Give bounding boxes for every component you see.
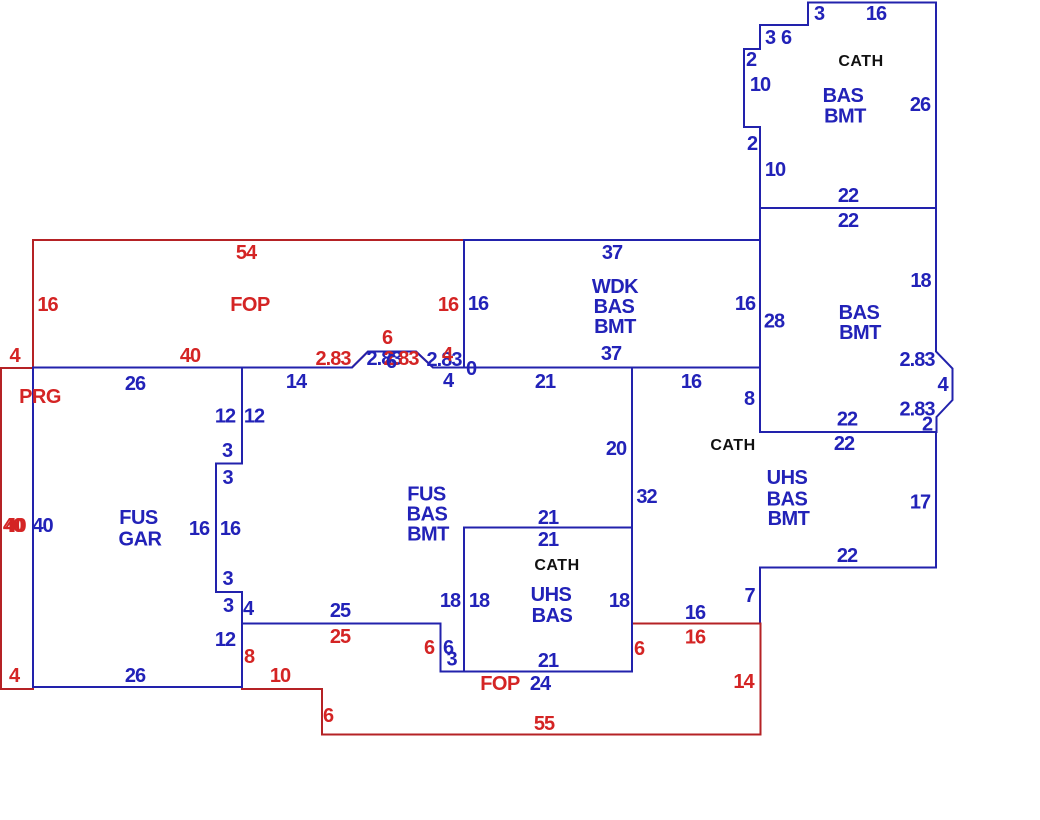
svg-text:FOP: FOP xyxy=(230,294,270,316)
svg-text:BAS: BAS xyxy=(407,504,448,526)
svg-text:3: 3 xyxy=(222,568,233,590)
svg-text:8: 8 xyxy=(244,646,255,668)
svg-text:16: 16 xyxy=(681,371,702,393)
svg-text:26: 26 xyxy=(125,373,146,395)
svg-text:2: 2 xyxy=(922,414,933,436)
svg-text:6: 6 xyxy=(424,637,435,659)
svg-text:6: 6 xyxy=(634,638,645,660)
svg-text:54: 54 xyxy=(236,242,258,264)
svg-text:16: 16 xyxy=(685,627,706,649)
svg-text:PRG: PRG xyxy=(19,386,61,408)
BAS BMT mid-right outline with chamfer (blue) xyxy=(760,208,953,432)
svg-text:18: 18 xyxy=(609,590,630,612)
svg-text:3: 3 xyxy=(223,595,234,617)
svg-text:BMT: BMT xyxy=(594,316,636,338)
svg-text:3: 3 xyxy=(814,3,825,25)
svg-text:BAS: BAS xyxy=(594,296,635,318)
svg-text:16: 16 xyxy=(438,294,459,316)
svg-text:2.83: 2.83 xyxy=(316,348,352,370)
svg-text:14: 14 xyxy=(733,671,755,693)
svg-text:CATH: CATH xyxy=(710,437,755,454)
svg-text:FUS: FUS xyxy=(407,484,446,506)
svg-text:40: 40 xyxy=(32,515,53,537)
svg-text:7: 7 xyxy=(744,585,755,607)
svg-text:BMT: BMT xyxy=(824,106,866,128)
svg-text:28: 28 xyxy=(764,311,785,333)
svg-text:6: 6 xyxy=(382,327,393,349)
svg-text:22: 22 xyxy=(837,545,858,567)
svg-text:16: 16 xyxy=(866,3,887,25)
UHS BAS inner box outline (blue) xyxy=(464,528,632,672)
svg-text:2: 2 xyxy=(746,49,757,71)
FUS BAS BMT outline (blue) xyxy=(216,352,632,672)
svg-text:16: 16 xyxy=(735,293,756,315)
svg-text:2.83: 2.83 xyxy=(900,349,936,371)
svg-text:3: 3 xyxy=(765,27,776,49)
svg-text:18: 18 xyxy=(440,590,461,612)
FOP top-left porch outline (red) xyxy=(33,240,464,368)
svg-text:BMT: BMT xyxy=(407,524,449,546)
svg-text:UHS: UHS xyxy=(767,467,808,489)
svg-text:21: 21 xyxy=(538,650,559,672)
svg-text:26: 26 xyxy=(125,665,146,687)
svg-text:WDK: WDK xyxy=(592,276,639,298)
svg-text:12: 12 xyxy=(215,629,236,651)
svg-text:FOP: FOP xyxy=(480,673,520,695)
svg-text:40: 40 xyxy=(180,345,201,367)
svg-text:10: 10 xyxy=(765,159,786,181)
svg-text:25: 25 xyxy=(330,626,351,648)
svg-text:22: 22 xyxy=(838,185,859,207)
svg-text:16: 16 xyxy=(37,294,58,316)
FOP bottom porch outline (red) xyxy=(242,624,761,735)
svg-text:BAS: BAS xyxy=(839,302,880,324)
svg-text:16: 16 xyxy=(189,518,210,540)
svg-text:BMT: BMT xyxy=(839,322,881,344)
svg-text:21: 21 xyxy=(535,371,556,393)
svg-text:BAS: BAS xyxy=(532,605,573,627)
svg-text:20: 20 xyxy=(606,438,627,460)
svg-text:22: 22 xyxy=(837,409,858,431)
svg-text:8: 8 xyxy=(744,388,755,410)
svg-text:21: 21 xyxy=(538,529,559,551)
svg-text:BAS: BAS xyxy=(823,85,864,107)
svg-text:14: 14 xyxy=(286,371,308,393)
svg-text:6: 6 xyxy=(386,351,397,373)
svg-text:CATH: CATH xyxy=(838,53,883,70)
svg-text:21: 21 xyxy=(538,507,559,529)
svg-text:22: 22 xyxy=(838,210,859,232)
svg-text:26: 26 xyxy=(910,94,931,116)
svg-text:BMT: BMT xyxy=(768,508,810,530)
svg-text:CATH: CATH xyxy=(534,557,579,574)
svg-text:2: 2 xyxy=(747,133,758,155)
svg-text:18: 18 xyxy=(910,270,931,292)
svg-text:24: 24 xyxy=(530,673,552,695)
svg-text:10: 10 xyxy=(270,665,291,687)
svg-text:55: 55 xyxy=(534,713,555,735)
UHS BAS BMT outline (blue, lower right) xyxy=(632,368,936,624)
svg-text:25: 25 xyxy=(330,600,351,622)
svg-text:32: 32 xyxy=(636,486,657,508)
svg-text:22: 22 xyxy=(834,433,855,455)
svg-text:16: 16 xyxy=(685,602,706,624)
svg-text:18: 18 xyxy=(469,590,490,612)
svg-text:12: 12 xyxy=(244,406,265,428)
svg-text:0: 0 xyxy=(466,358,477,380)
svg-text:17: 17 xyxy=(910,492,931,514)
svg-text:37: 37 xyxy=(601,343,622,365)
svg-text:GAR: GAR xyxy=(119,529,163,551)
svg-text:UHS: UHS xyxy=(531,584,572,606)
FUS GAR outline (blue) xyxy=(33,368,242,688)
WDK deck outline (blue) xyxy=(464,240,760,368)
svg-text:3: 3 xyxy=(446,649,457,671)
svg-text:6: 6 xyxy=(781,27,792,49)
svg-text:6: 6 xyxy=(323,705,334,727)
svg-text:16: 16 xyxy=(468,293,489,315)
svg-text:16: 16 xyxy=(220,518,241,540)
BAS BMT top-right outline (blue) xyxy=(744,3,936,209)
svg-text:12: 12 xyxy=(215,406,236,428)
PRG strip outline (red) xyxy=(1,368,33,689)
svg-text:3: 3 xyxy=(222,467,233,489)
svg-text:10: 10 xyxy=(750,74,771,96)
svg-text:3: 3 xyxy=(222,440,233,462)
svg-text:37: 37 xyxy=(602,242,623,264)
svg-text:40: 40 xyxy=(5,515,26,537)
svg-text:FUS: FUS xyxy=(119,507,158,529)
